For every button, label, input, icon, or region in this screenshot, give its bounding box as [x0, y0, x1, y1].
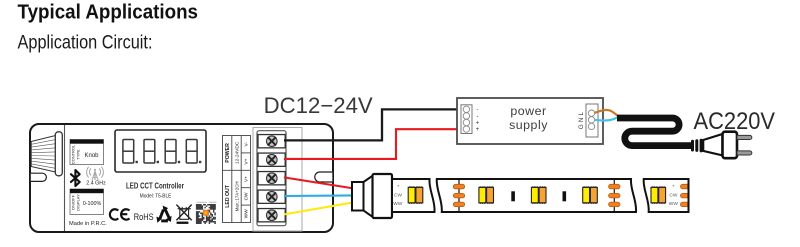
- svg-text:V+: V+: [244, 176, 250, 182]
- svg-text:V+: V+: [244, 158, 250, 164]
- svg-text:2.4 GHz: 2.4 GHz: [86, 181, 106, 187]
- svg-text:+: +: [397, 185, 400, 190]
- knob cable bundle: [31, 132, 62, 176]
- LED module at x=538.7: [531, 186, 546, 204]
- svg-text:supply: supply: [509, 118, 548, 132]
- controller U1: LED CCT Controller enclosure: [30, 124, 333, 232]
- svg-text:CW: CW: [244, 192, 250, 200]
- recycle symbol: [160, 210, 169, 221]
- LED module D1: [408, 186, 423, 204]
- internal divider line: [64, 125, 66, 231]
- control type label box (Knob): [70, 140, 104, 165]
- solder pads: [453, 180, 464, 211]
- svg-text:Model: T5-BLE: Model: T5-BLE: [140, 194, 172, 200]
- cut mark: [563, 191, 567, 201]
- plug strain relief ridges: [693, 140, 702, 151]
- power supply PS1: [457, 98, 603, 144]
- LED strip segment 1: [392, 179, 435, 212]
- plug pin top: [737, 135, 752, 139]
- svg-text:TYPE: TYPE: [75, 149, 80, 160]
- svg-text:Typical Applications: Typical Applications: [18, 1, 199, 23]
- wire V+ red: controller to LED strip connector: [284, 177, 354, 188]
- 7-segment display DS1: [115, 130, 206, 172]
- svg-text:WW: WW: [669, 201, 679, 207]
- plug neck cone: [703, 134, 722, 155]
- svg-text:-: -: [477, 114, 479, 120]
- svg-text:DC12−24V: DC12−24V: [264, 93, 373, 118]
- svg-text:Knob: Knob: [84, 153, 99, 159]
- wire WW yellow: controller to LED strip connector: [284, 202, 354, 214]
- svg-text:-: -: [477, 107, 479, 113]
- wire CW blue: controller to LED strip connector: [284, 194, 354, 197]
- svg-text:+: +: [672, 185, 675, 190]
- LED strip connector plug: [352, 174, 392, 218]
- AC power cable: [617, 118, 691, 146]
- antenna icon 2.4GHz: [87, 167, 104, 181]
- svg-text:Application Circuit:: Application Circuit:: [18, 32, 153, 54]
- plug pin bottom: [737, 151, 752, 155]
- bluetooth icon: [71, 170, 80, 186]
- svg-text:+: +: [476, 121, 480, 127]
- mounting slot right: [315, 172, 333, 182]
- svg-text:0-100%: 0-100%: [83, 201, 102, 207]
- svg-text:CW: CW: [669, 192, 677, 198]
- svg-text:POWER: POWER: [225, 143, 231, 163]
- svg-text:+: +: [476, 127, 480, 133]
- mounting slot left: [31, 173, 47, 181]
- LED strip segment 2: [437, 179, 636, 212]
- plug body: [723, 132, 738, 159]
- svg-text:RoHS: RoHS: [134, 212, 154, 222]
- QR code: [196, 202, 218, 224]
- svg-text:power: power: [510, 104, 546, 118]
- on/off display label box (0-100%): [70, 189, 104, 215]
- strip labels + CW WW: [669, 185, 679, 208]
- cut mark: [511, 191, 515, 201]
- svg-text:CW: CW: [394, 192, 402, 198]
- LED module at x=486.2: [479, 186, 494, 204]
- svg-text:WW: WW: [244, 209, 250, 219]
- svg-text:12-24VDC: 12-24VDC: [234, 141, 240, 164]
- screw terminals TB1 (5x): [258, 135, 285, 222]
- svg-text:DISPLAY: DISPLAY: [75, 194, 80, 211]
- svg-text:LED CCT Controller: LED CCT Controller: [126, 180, 184, 190]
- WEEE crossed-out bin symbol: [176, 205, 191, 221]
- wire V+ red: controller to power supply: [284, 129, 462, 159]
- svg-text:LED OUT: LED OUT: [225, 184, 231, 208]
- CE mark: [110, 209, 130, 219]
- terminal block backing panel: [253, 128, 302, 232]
- svg-text:WW: WW: [393, 201, 403, 207]
- LED strip segment 3: [644, 179, 689, 212]
- terminal block rail: [257, 131, 286, 226]
- solder pads: [609, 180, 620, 211]
- svg-text:V-: V-: [244, 142, 250, 147]
- wire L brown to plug cable: [595, 110, 620, 117]
- wire N blue to plug cable: [595, 117, 620, 121]
- LED module at x=590: [583, 186, 598, 204]
- terminal label table: [223, 136, 251, 223]
- svg-text:GNL: GNL: [578, 110, 585, 129]
- end solder pads: [680, 184, 687, 206]
- svg-text:Made in P.R.C.: Made in P.R.C.: [69, 221, 107, 227]
- LED module at x=658.3: [651, 186, 666, 204]
- wire V- black: controller to power supply: [284, 109, 462, 140]
- svg-text:Max.:17A+2CH: Max.:17A+2CH: [234, 181, 239, 211]
